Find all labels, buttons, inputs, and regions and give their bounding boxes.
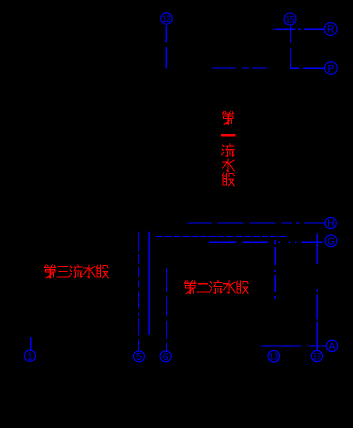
dashed vertical v3 to bubble 6 <box>165 268 167 351</box>
char 段 <box>223 173 235 186</box>
dashed vertical v5 to bubble 17 <box>316 234 318 351</box>
char 流 <box>70 265 82 278</box>
svg-text:17: 17 <box>313 351 322 361</box>
fine dashed line y236 <box>156 235 287 237</box>
H axis dash line <box>187 222 325 224</box>
axis bubble 6 <box>160 351 171 363</box>
char 一 <box>222 134 234 136</box>
char 第 <box>45 265 56 278</box>
char 段 <box>237 281 249 294</box>
svg-text:R: R <box>327 25 334 36</box>
axis line R horizontal tick <box>273 28 324 30</box>
char 水 <box>84 265 96 278</box>
axis line P elbow from 15 stem <box>291 60 325 68</box>
svg-text:12: 12 <box>162 14 171 24</box>
axis bubble 12 <box>161 13 172 24</box>
axis bubble 13 <box>268 350 280 362</box>
axis line 15 stem vertical <box>290 25 292 68</box>
G axis dash line <box>209 241 322 243</box>
axis bubble P <box>325 62 338 75</box>
axis bubble G <box>325 235 337 248</box>
svg-text:5: 5 <box>136 352 142 363</box>
char 二 <box>197 284 209 292</box>
axis line 1 stem <box>30 337 32 350</box>
svg-text:A: A <box>329 342 336 353</box>
axis bubble H <box>325 217 336 229</box>
svg-text:13: 13 <box>269 352 278 362</box>
red text: 第二流水段 (second flow section) <box>185 281 249 294</box>
char 流 <box>210 281 222 294</box>
axis bubble R <box>324 23 337 36</box>
bottom A axis line <box>261 345 327 347</box>
dashed vertical v1 to bubble 5 <box>138 231 140 350</box>
char 水 <box>223 159 235 172</box>
red vertical text: 第一流水段 (first flow section) <box>222 111 235 185</box>
axis bubble 15 <box>284 13 296 25</box>
axis bubble A <box>326 340 337 352</box>
svg-text:15: 15 <box>286 14 295 24</box>
axis bubble 5 <box>134 351 145 363</box>
char 第 <box>223 111 234 124</box>
red text: 第三流水段 (third flow section) <box>45 265 109 278</box>
char 流 <box>222 144 234 157</box>
dashed vertical v4 <box>274 240 276 299</box>
axis line left dashes y68 <box>212 67 267 69</box>
char 第 <box>185 281 196 294</box>
axis line 12 stem (dash-dot vertical) <box>165 25 167 68</box>
svg-text:1: 1 <box>27 351 33 362</box>
svg-text:H: H <box>327 219 334 230</box>
svg-text:6: 6 <box>163 352 169 363</box>
axis bubble 1 <box>24 350 35 362</box>
axis bubble 17 <box>311 350 322 361</box>
svg-text:P: P <box>328 64 335 75</box>
char 三 <box>57 266 69 277</box>
solid vertical v2 <box>148 231 150 335</box>
svg-text:G: G <box>327 237 335 248</box>
char 水 <box>224 281 236 294</box>
char 段 <box>97 265 109 278</box>
